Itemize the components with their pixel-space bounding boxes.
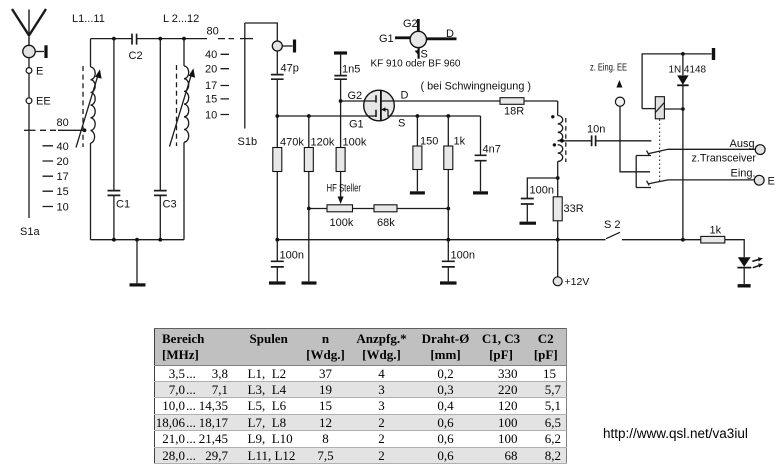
resistor 68k: [374, 205, 397, 212]
LED arrows: [752, 259, 759, 261]
svg-text:120k: 120k: [311, 137, 335, 149]
ground: [136, 240, 138, 284]
svg-text:33R: 33R: [564, 203, 584, 215]
svg-text:10: 10: [57, 202, 69, 214]
switch S2: [606, 232, 620, 238]
Eing line: [668, 179, 754, 181]
capacitor C1: [113, 39, 115, 191]
Ausg line: [668, 148, 755, 150]
url caption: [603, 426, 748, 441]
switch S1a wiper: [24, 129, 36, 131]
antenna: [12, 9, 46, 45]
svg-text:100k: 100k: [343, 137, 367, 149]
inverted ground for 1n5: [334, 51, 347, 54]
connector for 47p: [272, 41, 282, 51]
pinout symbol KF910: [417, 19, 420, 31]
resistor 150: [416, 116, 418, 146]
svg-text:KF 910 oder BF 960: KF 910 oder BF 960: [371, 58, 461, 70]
capacitor 100n (left bias): [276, 240, 278, 261]
contact bracket: [636, 156, 651, 188]
svg-text:100n: 100n: [451, 250, 475, 262]
svg-text:100k: 100k: [330, 217, 354, 229]
wire antenna to E: [28, 58, 30, 68]
capacitor C2: [132, 34, 137, 45]
LED D2: [738, 257, 751, 267]
svg-text:4n7: 4n7: [483, 144, 501, 156]
svg-text:10n: 10n: [587, 124, 605, 136]
svg-text:S: S: [398, 118, 405, 130]
resistor 33R: [557, 178, 559, 197]
svg-text:470k: 470k: [280, 137, 304, 149]
capacitor 10n: [592, 135, 596, 146]
terminal EE: [26, 98, 32, 104]
svg-text:1n5: 1n5: [342, 63, 360, 75]
svg-text:20: 20: [57, 156, 69, 168]
svg-text:C1: C1: [116, 199, 130, 211]
svg-text:1k: 1k: [454, 136, 466, 148]
G2 rail: [341, 100, 365, 102]
wire 1n5 to G2 node, crossing G1 rail down to 100k: [340, 80, 342, 148]
S1a tap dashes to position 80: [40, 129, 56, 131]
S rail: [394, 115, 480, 117]
switch S1b pole: [244, 23, 246, 129]
svg-text:18R: 18R: [504, 106, 524, 118]
node L1 tap: [83, 128, 87, 132]
svg-text:40: 40: [57, 141, 69, 153]
node C1 top: [112, 37, 116, 41]
svg-text:L 2...12: L 2...12: [163, 13, 199, 25]
svg-text:S: S: [421, 49, 428, 61]
svg-text:15: 15: [205, 94, 217, 106]
potentiometer 100k HF Steller: [327, 205, 353, 212]
svg-text:47p: 47p: [281, 63, 299, 75]
ground for pot: [308, 209, 310, 282]
top rail left: [91, 38, 133, 40]
svg-text:E: E: [36, 66, 43, 78]
wire tap 80 to L1: [58, 129, 85, 131]
svg-text:C3: C3: [163, 199, 177, 211]
node C3 top: [158, 37, 162, 41]
svg-text:1k: 1k: [710, 225, 722, 237]
svg-text:100n: 100n: [280, 250, 304, 262]
capacitor 100n (drain decouple): [527, 178, 557, 198]
transformer tap wire: [558, 140, 592, 142]
svg-text:15: 15: [57, 186, 69, 198]
switch S1a pole wire: [28, 104, 30, 218]
relay actuator dotted: [659, 120, 661, 184]
svg-text:G1: G1: [349, 119, 364, 131]
contact arm Ausg: [648, 149, 668, 154]
node L2 top: [182, 37, 186, 41]
resistor 470k: [276, 116, 278, 148]
resistor 100k (G2 feed): [336, 148, 345, 172]
L2 core: [176, 65, 178, 146]
switch S1b wiper: [240, 38, 253, 40]
terminal z.Eing.EE: [616, 80, 622, 88]
svg-text:80: 80: [207, 26, 219, 38]
svg-text:+12V: +12V: [565, 276, 590, 288]
svg-text:S 2: S 2: [604, 219, 621, 231]
svg-text:17: 17: [57, 171, 69, 183]
svg-text:20: 20: [205, 64, 217, 76]
wire E to EE: [28, 73, 30, 97]
svg-text:D: D: [401, 90, 409, 102]
supply bus: [277, 239, 605, 241]
resistor 18R: [500, 98, 524, 105]
L1 core: [82, 66, 84, 147]
svg-text:S1b: S1b: [238, 136, 258, 148]
data table: [154, 328, 567, 464]
svg-text:G2: G2: [348, 90, 363, 102]
svg-text:100n: 100n: [530, 185, 554, 197]
MOSFET T1 KF910/BF960: [364, 90, 395, 121]
svg-text:z. Eing. EE: z. Eing. EE: [590, 62, 627, 74]
S1b tap dashes: [218, 38, 234, 40]
antenna connector X1: [23, 45, 35, 57]
resistor 1k (LED): [701, 236, 725, 243]
wire S1b to 47p node: [245, 23, 277, 41]
transformer Tr1: [557, 101, 559, 116]
svg-text:( bei Schwingneigung ): ( bei Schwingneigung ): [421, 81, 532, 93]
svg-text:68k: 68k: [377, 217, 395, 229]
svg-text:Eing.: Eing.: [731, 167, 756, 179]
svg-text:C2: C2: [129, 50, 143, 62]
svg-text:L1...11: L1...11: [72, 13, 105, 25]
svg-text:D: D: [446, 28, 454, 40]
svg-text:z.Transceiver: z.Transceiver: [692, 152, 757, 164]
svg-text:HF Steller: HF Steller: [327, 183, 362, 195]
svg-text:150: 150: [420, 136, 438, 148]
svg-text:17: 17: [205, 80, 217, 92]
contact arm Eing: [648, 180, 668, 184]
inductor L2: [183, 39, 185, 240]
capacitor 4n7: [480, 116, 482, 155]
wire EE terminal to contacts: [620, 106, 650, 172]
L1 adjust arrow: [76, 75, 98, 148]
capacitor C3: [159, 39, 161, 191]
+12V terminal: [557, 240, 559, 277]
svg-text:40: 40: [205, 49, 217, 61]
diode 1N4148: [682, 54, 684, 75]
svg-text:EE: EE: [36, 96, 51, 108]
svg-text:80: 80: [57, 117, 69, 129]
svg-text:S1a: S1a: [20, 226, 40, 238]
relay K1: [642, 54, 712, 109]
S1b position marks: [221, 54, 230, 114]
L2 adjust arrow: [170, 74, 192, 147]
capacitor 47p: [276, 51, 278, 74]
svg-text:G1: G1: [379, 33, 394, 45]
capacitor 100n (right bias): [447, 240, 449, 261]
G1 rail: [277, 115, 364, 117]
terminal E: [26, 68, 32, 74]
svg-text:10: 10: [205, 109, 217, 121]
resistor 120k: [308, 116, 310, 148]
S1a position marks: [43, 146, 54, 207]
svg-text:Ausg.: Ausg.: [730, 138, 758, 150]
svg-text:1N 4148: 1N 4148: [669, 63, 707, 75]
inductor L1: [90, 39, 92, 240]
ground rail of tuned circuits: [91, 239, 185, 241]
resistor 1k (source): [447, 116, 449, 146]
svg-text:G2: G2: [403, 18, 418, 30]
svg-text:E: E: [768, 176, 775, 188]
capacitor 1n5: [334, 76, 347, 80]
